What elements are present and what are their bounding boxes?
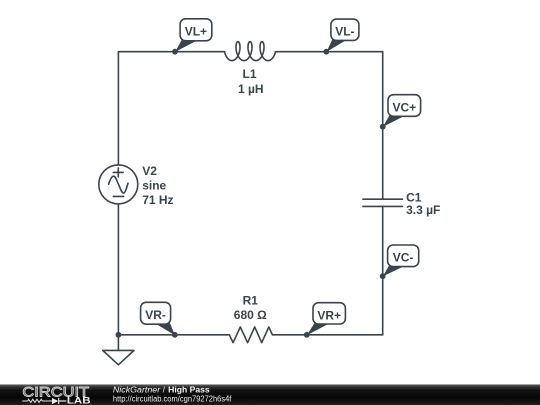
node dots [116, 49, 386, 338]
ground triangle [103, 350, 134, 364]
node VL+ dot [172, 49, 178, 55]
flag VR- [141, 302, 175, 335]
flag VL- [327, 19, 359, 52]
node VR+ dot [304, 332, 310, 338]
svg-text:R1: R1 [243, 294, 259, 308]
svg-text:1 µH: 1 µH [238, 82, 264, 96]
svg-text:71 Hz: 71 Hz [142, 193, 173, 207]
wire right vertical lower [382, 206, 384, 334]
V2 minus sign [113, 195, 123, 197]
logo circuit line: resistor zigzag [22, 399, 52, 402]
node VL- dot [323, 49, 329, 55]
svg-text:sine: sine [142, 179, 166, 193]
voltage source V2 circle [99, 165, 138, 204]
flag VC- [383, 245, 419, 276]
svg-text:LAB: LAB [67, 395, 91, 405]
logo diode [52, 398, 58, 404]
svg-text:VL+: VL+ [185, 24, 207, 38]
junction ground dot [116, 332, 122, 338]
wire left vertical [117, 52, 119, 165]
svg-text:VC+: VC+ [392, 100, 416, 114]
capacitor C1 plates [363, 199, 403, 206]
svg-text:V2: V2 [142, 164, 157, 178]
flag VC+ [383, 95, 421, 127]
footer bar [0, 384, 540, 405]
svg-text:VL-: VL- [335, 24, 354, 38]
svg-text:3.3 µF: 3.3 µF [406, 203, 440, 217]
svg-text:http://circuitlab.com/cgn79272: http://circuitlab.com/cgn79272h6s4f [113, 394, 232, 403]
V2 plus sign [113, 168, 123, 177]
svg-text:NickGartner: NickGartner [113, 385, 161, 394]
node VR- dot [172, 332, 178, 338]
svg-text:VR+: VR+ [317, 308, 341, 322]
wire top right of inductor [276, 51, 383, 53]
svg-text:680 Ω: 680 Ω [234, 308, 267, 322]
flag VR+ [307, 303, 345, 335]
wire bottom right of resistor [272, 334, 382, 336]
flag VL+ [175, 19, 212, 52]
node VC- dot [380, 273, 386, 279]
inductor L1 coil [225, 42, 276, 61]
svg-text:VR-: VR- [145, 308, 166, 322]
wire left vertical lower [117, 204, 119, 335]
wire top [118, 51, 224, 53]
svg-text:High Pass: High Pass [168, 385, 210, 394]
ground stem [117, 335, 119, 351]
svg-text:L1: L1 [242, 67, 256, 81]
resistor R1 zigzag [229, 327, 272, 343]
svg-text:VC-: VC- [393, 251, 414, 265]
wire right vertical upper [382, 52, 384, 200]
wire bottom left [118, 334, 229, 336]
V2 sine wave [109, 176, 128, 193]
node VC+ dot [380, 124, 386, 130]
